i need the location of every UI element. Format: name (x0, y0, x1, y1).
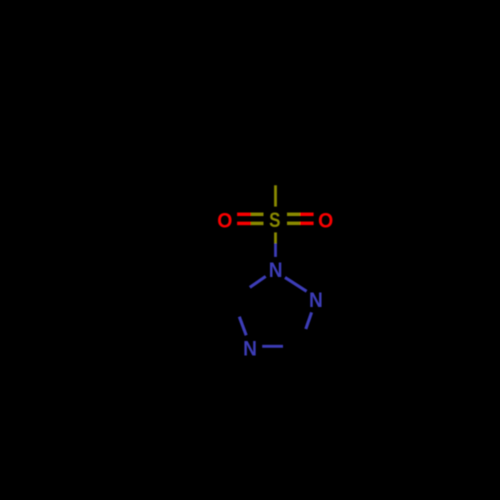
wire: double bond S1=O2 lower line, S half (olive) (287, 222, 300, 226)
wire: double bond S1=O1 upper line, S half (olive) (251, 213, 264, 217)
wire: double bond S1=O2 upper line, O half (red) (300, 213, 314, 217)
wire: bond S1-N1, N half (blue) (274, 244, 277, 257)
wire: double bond S1=O1 lower line, S half (olive) (251, 222, 264, 226)
wire: bond S1-N1, S half (olive) (274, 232, 277, 243)
svg-text:O: O (318, 209, 333, 232)
wire: ring bond C5-N4, N half (blue) (239, 317, 246, 336)
svg-text:N: N (269, 259, 283, 282)
wire: bond C6(methyl)-S1, sulfur-colored half (274, 185, 277, 206)
wire: ring bond N1-C5, N half (blue) (250, 276, 266, 287)
svg-text:N: N (309, 289, 323, 312)
wire: ring bond N2-C3, N half (blue) (306, 312, 312, 329)
svg-text:S: S (269, 209, 280, 232)
wire: double bond S1=O2 upper line, S half (olive) (287, 213, 300, 217)
svg-text:O: O (217, 209, 232, 232)
wire: ring bond N1-N2 (blue) (285, 277, 307, 291)
wire: ring bond N4-C3, N half (blue) (262, 345, 283, 348)
wire: double bond S1=O2 lower line, O half (red) (300, 222, 314, 226)
wire: double bond S1=O1 lower line, O half (red) (237, 222, 251, 226)
svg-text:N: N (243, 337, 257, 360)
wire: double bond S1=O1 upper line, O half (red) (237, 213, 251, 217)
